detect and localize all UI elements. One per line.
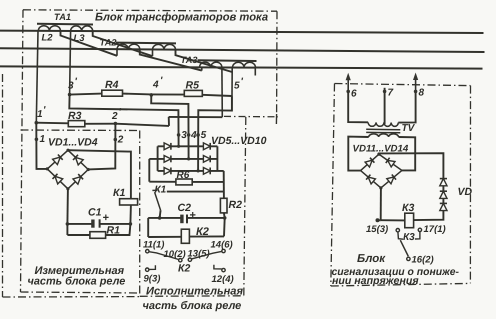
label: часть блока реле (executive) [143,300,242,312]
svg-text:4: 4 [190,130,197,141]
transformer TA1 winding L3 [71,26,93,31]
resistor R2 [220,198,227,213]
node C1 left junction [66,222,70,226]
terminal 8 arrow [413,73,425,99]
wire 1' to R3 [36,122,68,125]
diode VD9 [164,168,171,175]
contact wire 11(1) to 10(2) [149,252,179,260]
wire TA3 g1 left stub [201,67,203,70]
frame: outer relay border (dash-dot) [3,74,140,297]
svg-text:1: 1 [40,134,46,145]
wire TA2 g2 right diagonal to TA3 [176,50,233,72]
contact K3 blade to 16(2) [400,240,408,256]
terminal 17(1) [424,224,446,235]
diode VD5 [164,143,171,150]
wire TA2 g1 left stub [116,49,118,56]
frame: signal block border (dash-dot) [331,84,471,287]
diode VD6 [203,143,210,150]
label TA1 [54,12,71,22]
svg-text:R6: R6 [177,170,190,181]
label VD [458,186,473,198]
wire L2 right end diagonal to TA2 [61,31,118,56]
wire TV secondary right to bridge [399,137,416,170]
svg-text:2: 2 [117,134,124,145]
label K3 coil [402,202,414,214]
label K1 coil [113,187,125,199]
wire R2 to row A [223,213,226,218]
label VD1...VD4 [48,137,98,149]
transformer TA2 winding group 2 [153,44,176,49]
diode VD7 [164,156,171,163]
svg-text:11(1): 11(1) [143,240,164,251]
label TA3 [181,55,198,65]
wire terminal 6 to TV primary [348,91,368,122]
svg-text:4: 4 [152,80,159,91]
wire row A left corner down [147,218,149,237]
wire R6 row right [192,181,224,183]
svg-text:К3: К3 [402,202,414,214]
wire 3' to R4 [70,94,102,95]
svg-text:нии напряжения: нии напряжения [332,275,419,287]
svg-text:К1: К1 [155,184,167,195]
wire 1' down to bridge left vertex [36,123,47,169]
svg-text:часть блока реле: часть блока реле [143,300,242,312]
terminal 5 [196,130,206,141]
label: нии напряжения [332,275,419,287]
wire C1 rail left segment [67,223,92,225]
bridge row 3 [158,170,224,172]
contact wire 13(5) to 14(6) [192,251,222,259]
bridge right rail [216,146,218,171]
terminal 9(3) with hook [144,265,161,284]
svg-text:16(2): 16(2) [412,255,434,266]
diode VD11 [365,158,374,167]
bridge row 2 [149,158,217,160]
label: Исполнительная [146,286,243,298]
wire L3 left end down to node 3' [70,31,71,94]
transformer TA3 core bar [198,59,257,62]
svg-text:С1: С1 [88,207,102,219]
capacitor C2 [180,215,187,224]
label C2 [178,202,192,214]
transformer TV secondary winding [369,134,399,137]
frame: executive block border (dash-dot) [140,117,246,296]
frame: current-transformer block border (dash-dot) [21,10,279,292]
wire 4' down-right to terminal 4 [151,95,188,159]
terminal 12(4) with hook [212,265,234,285]
label C1 plus [103,212,109,224]
wire R1 row right and up [106,224,131,235]
wire R3 to 2' [85,123,116,125]
terminal 16(2) [407,255,434,266]
transformer TA3 winding group 1 [200,62,222,67]
wire chain to K3 coil [414,210,444,220]
label K1 contact [155,184,167,195]
label K2 coil [196,226,209,238]
svg-text:VD5...VD10: VD5...VD10 [211,135,267,147]
diode VD chain d3 [440,203,447,210]
transformer TA1 core bar [37,23,93,26]
terminal 6 arrow [346,73,357,100]
wire TA3 g2 right stub [254,68,256,76]
svg-text:5: 5 [201,130,207,141]
node 1' [35,105,47,124]
diode VD4 (bottom-right edge) [73,174,83,184]
label K3 contact [403,232,415,243]
transformer TA3 winding group 2 [233,62,256,67]
contact K3 left terminal [396,229,403,240]
diode VD12 [386,158,395,167]
diode VD8 [203,156,210,163]
diode bridge VD1-VD4 frame [46,149,90,191]
transformer TV primary winding [368,122,398,126]
svg-text:+: + [103,212,109,224]
svg-text:R5: R5 [186,80,200,92]
svg-text:3: 3 [181,130,187,141]
wire 5' down-left to terminal 5 [198,96,232,171]
wire row Bb right corner up [223,218,226,237]
svg-text:3: 3 [68,81,74,92]
svg-text:+: + [190,210,196,222]
label R3 [68,110,82,122]
node terminal3 wire on row1 [177,145,180,148]
label: Блок [357,253,386,265]
contact K3 right terminal [415,228,422,239]
wire current bus line 2 (phase B) [0,48,485,52]
resistor R3 [68,121,85,127]
relay coil K2 [181,229,189,243]
svg-text:10(2): 10(2) [164,249,186,260]
label VD11...VD14 [353,143,409,154]
wire 2' extension right [115,124,169,126]
wire L3 right end diagonal to TA2 [93,32,153,56]
wire R5 to node 5' [202,95,232,96]
terminal 1 [35,134,46,145]
svg-text:часть блока реле: часть блока реле [28,275,126,287]
diode VD3 (bottom-left edge) [53,174,63,184]
wire terminal 8 to TV primary [398,91,415,122]
relay coil K3 [405,213,414,228]
wire bridge top vertex to K1 coil [68,150,131,199]
terminal 13(5) [188,248,210,261]
transformer TA2 winding group 1 [117,44,140,49]
terminal 4 [187,130,197,141]
terminal 14(6) [211,240,233,253]
label K2 contact [178,263,190,275]
wire row Bb right [189,235,224,237]
capacitor C1 [91,219,99,227]
node 2' [111,107,122,125]
wire chain seg1 [442,186,444,192]
wire left branch down to R1 row [66,224,68,235]
wire bridge top vertex to VD chain [379,153,444,179]
node terminal5 wire on row3 [197,169,200,172]
terminal 2 [114,134,124,145]
resistor R5 [184,90,202,96]
svg-text:ТА2: ТА2 [100,38,118,48]
node C1 right junction [129,222,133,226]
svg-text:2: 2 [111,111,118,122]
resistor R1 [90,232,106,239]
wire 4' to R5 [151,93,184,95]
svg-text:17(1): 17(1) [424,224,446,235]
diode VD14 [387,175,396,184]
wire TA2 g2 left stub (from L3 diagonal) [152,50,154,57]
wire bridge bottom vertex down [66,189,69,224]
wire row A (C2 rail) [148,217,225,219]
label: Блок трансформаторов тока [95,12,268,24]
svg-text:ТА1: ТА1 [54,12,71,22]
node 4' [150,76,164,97]
svg-text:R4: R4 [105,79,119,91]
label VD5...VD10 [211,135,267,147]
wire right branch down from row3 [223,171,225,198]
diode VD1 (left-top edge) [53,155,63,165]
terminal 3 [177,130,188,141]
wire TA3 g1 right end down to 2' extension [221,68,223,117]
wire current bus line 1 (phase A) [0,31,484,33]
label TA2 [100,38,118,48]
svg-text:15(3): 15(3) [366,224,388,235]
svg-text:7: 7 [388,88,394,99]
node row A right junction [223,216,227,220]
node terminal4 wire on row2 [187,157,190,160]
wire R6 row left [149,181,176,183]
relay coil K1 [120,199,138,205]
label R2 [229,199,243,211]
terminal 15(3) [366,218,388,235]
svg-text:12(4): 12(4) [212,274,234,285]
frame: measuring block border (dash-dot) [21,130,140,296]
label TV [402,123,416,134]
wire TV secondary left to bridge [348,137,368,171]
diode bridge VD11-VD14 frame [361,153,402,190]
label 5' [234,76,244,91]
wire upper run to TA3 g1 drop [169,116,223,118]
wire terminal 7 to TV primary tap [384,91,386,124]
resistor R6 [176,179,192,185]
svg-text:VD: VD [458,186,473,198]
wire R1 row left [67,234,90,236]
transformer TV core [366,129,400,133]
svg-text:8: 8 [419,88,425,99]
wire middle row B [167,191,224,193]
bridge row 1 [158,145,218,147]
wire 2' down to bridge right vertex [88,124,115,170]
wire TA3 g2 left end down to node 5' [231,68,233,111]
label L3 [74,33,86,44]
wire current bus line 3 (phase C) [0,66,483,68]
svg-text:К3: К3 [403,232,415,243]
svg-text:9(3): 9(3) [144,274,161,285]
svg-text:Блок трансформаторов тока: Блок трансформаторов тока [95,12,268,24]
label R5 [186,80,200,92]
diode VD chain d2 [440,191,447,198]
svg-text:R2: R2 [229,199,243,211]
diode VD chain d1 [440,179,447,186]
node 3' [68,77,78,97]
transformer TA1 winding L2 [38,26,60,31]
wire TA2 g1 right diagonal to TA3 [140,49,202,70]
wire K1 coil to C1 rail [129,205,132,224]
label: сигнализации о пониже- [332,267,460,278]
wire riser to upper run [168,117,170,126]
wire R4 to 4' [123,93,152,96]
svg-text:К1: К1 [113,187,125,199]
terminal 11(1) [143,240,164,253]
bridge left rail [157,146,159,171]
svg-text:К2: К2 [178,263,190,275]
diode VD2 (right-top edge) [73,155,83,165]
svg-text:Исполнительная: Исполнительная [146,286,243,298]
svg-text:VD1...VD4: VD1...VD4 [48,137,98,149]
label R4 [105,79,119,91]
svg-text:ТV: ТV [402,123,416,134]
contact K1 blade [155,192,161,210]
wire C1 rail right segment [100,223,131,225]
wire K1 blade to row A [160,210,161,218]
svg-text:6: 6 [351,89,357,100]
node row A left junction [158,216,162,220]
label L2 [42,33,54,44]
svg-text:L2: L2 [42,33,54,44]
diode VD13 [366,175,375,184]
label R1 [107,225,121,237]
svg-text:Блок: Блок [357,253,386,265]
wire row Bb left [148,236,181,238]
wire bridge bottom vertex down to 15(3) [380,188,382,220]
wire row2 left extension down to R6 row [148,159,150,182]
label: Измерительная [35,265,125,277]
diode VD10 [203,168,210,175]
contact K1 fixed tick [152,189,157,191]
resistor R4 [102,90,123,96]
wire L2 left end down to node 1' [36,31,38,123]
label: часть блока реле (measuring) [28,275,126,287]
svg-text:5: 5 [234,80,240,91]
wire 3' down-right to terminal 3 [69,95,178,147]
label C1 [88,207,102,219]
label R6 [177,170,190,181]
svg-text:14(6): 14(6) [211,240,233,251]
terminal 7 [383,88,394,99]
wire chain seg2 [442,198,444,204]
wire 15(3) to K3 coil [381,219,405,221]
transformer TA2 core bar [116,42,176,45]
svg-text:ТА3: ТА3 [181,55,198,65]
label C2 plus [190,210,196,222]
terminal 10(2) [164,249,186,262]
svg-text:R3: R3 [68,110,82,122]
